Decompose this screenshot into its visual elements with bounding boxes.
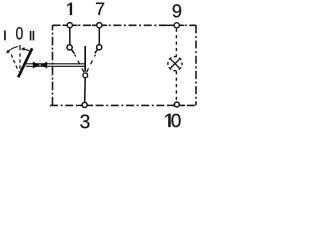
linkage coupling bow-tie arrows <box>33 62 40 69</box>
position label II <box>30 31 31 40</box>
detent tick <box>19 45 20 50</box>
position label I <box>4 31 5 40</box>
arc arrowhead left <box>6 50 10 54</box>
wire terminal 1 to contact <box>69 28 71 45</box>
terminal 7 circle <box>97 23 102 28</box>
terminal 3 circle <box>82 102 87 107</box>
wire lamp to 10 (dashed) <box>175 71 177 101</box>
contact 1 end circle <box>67 45 72 50</box>
position label 0 <box>16 27 23 39</box>
terminal 3 label <box>80 114 89 128</box>
terminal 1 label <box>67 3 72 15</box>
contact 7 end circle <box>97 45 102 50</box>
terminal 9 circle <box>174 23 179 28</box>
terminal 10 label <box>165 114 180 127</box>
contact 1 hook <box>72 50 75 54</box>
movable blade (position 0, solid) <box>84 46 86 72</box>
terminal 10 stub on housing <box>169 104 185 106</box>
indicator lamp: dashed circle <box>168 57 182 71</box>
wire pivot to terminal 3 <box>84 78 87 102</box>
terminal 1 stub on housing <box>63 24 78 26</box>
terminal 7 stub on housing <box>92 24 107 26</box>
terminal 3 stub on housing <box>78 104 92 106</box>
blade alternate position toward 7 (dashed) <box>87 55 96 72</box>
pivot circle <box>83 73 88 78</box>
wire 9 to lamp (dashed) <box>175 29 177 56</box>
blade alternate position toward 1 (dashed) <box>75 55 84 73</box>
dashed enclosure box (switch housing outline) <box>50 25 196 105</box>
indicator lamp: X filament <box>171 59 180 68</box>
mechanical linkage (double line) <box>25 63 85 65</box>
terminal 9 stub on housing <box>160 24 184 26</box>
contact 7 hook <box>95 50 98 54</box>
rotation arc (right half) <box>24 49 31 52</box>
lever alternate position I (dashed) <box>11 55 18 72</box>
arc arrowhead right (pointing at tick) <box>21 47 25 51</box>
terminal 7 label <box>96 3 104 15</box>
terminal 1 circle <box>67 23 72 28</box>
terminal 10 circle <box>174 102 179 107</box>
rotation arc (left half) <box>8 47 18 52</box>
wire terminal 7 to contact <box>98 28 100 45</box>
lever alternate position 0 (dashed) <box>19 53 21 70</box>
terminal 9 label <box>173 4 182 17</box>
lever (solid, position II) <box>18 48 32 77</box>
